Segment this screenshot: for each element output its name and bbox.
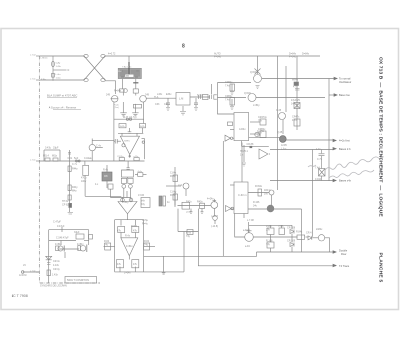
svg-text:L.7.0y: L.7.0y — [30, 271, 35, 273]
svg-text:D=84x: D=84x — [302, 53, 310, 56]
svg-text:OX 713 B — BASE DE TEMPS : D: OX 713 B — BASE DE TEMPS : DECLENCHEMENT… — [378, 57, 384, 217]
svg-text:CR.109: CR.109 — [287, 240, 296, 243]
svg-text:T=84: T=84 — [197, 94, 203, 97]
svg-text:A=R.M: A=R.M — [19, 274, 26, 277]
svg-text:L=84y: L=84y — [253, 104, 260, 107]
svg-text:Q.45: Q.45 — [277, 131, 283, 134]
svg-text:CR.108: CR.108 — [287, 227, 296, 230]
svg-text:500Ω T CONDITION: 500Ω T CONDITION — [67, 279, 89, 282]
svg-text:249: 249 — [145, 94, 150, 97]
svg-text:7=15: 7=15 — [278, 225, 284, 228]
svg-text:C.7x: C.7x — [72, 163, 78, 166]
svg-text:4=4x: 4=4x — [138, 171, 142, 173]
svg-text:To normal: To normal — [339, 77, 351, 81]
svg-text:P.131x: P.131x — [118, 156, 124, 158]
svg-text:4=84y: 4=84y — [77, 243, 84, 246]
svg-text:P=84y: P=84y — [214, 56, 222, 59]
svg-text:R44y: R44y — [72, 168, 78, 171]
svg-text:TLA: TLA — [154, 96, 159, 99]
svg-text:R=8y: R=8y — [170, 194, 176, 197]
svg-text:M4y: M4y — [72, 190, 77, 193]
svg-text:R47k: R47k — [120, 126, 125, 128]
svg-text:MB: MB — [104, 175, 108, 178]
svg-text:4=2x first: 4=2x first — [339, 139, 350, 143]
svg-text:C33: C33 — [155, 103, 160, 106]
svg-text:R=8y: R=8y — [170, 175, 176, 178]
svg-text:Double: Double — [339, 249, 348, 253]
svg-text:P.JEx: P.JEx — [41, 79, 46, 81]
svg-text:4=84y: 4=84y — [122, 201, 129, 204]
svg-text:W84x: W84x — [292, 79, 299, 82]
svg-text:R47k: R47k — [140, 126, 145, 128]
svg-text:(-8.2): (-8.2) — [186, 212, 191, 214]
svg-text:ℹ⁢C T 7908: ℹ⁢C T 7908 — [12, 293, 28, 298]
svg-text:1.43x: 1.43x — [52, 274, 59, 277]
svg-text:(+14.8: (+14.8 — [211, 215, 219, 218]
svg-text:E33x: E33x — [166, 93, 172, 96]
svg-text:402: 402 — [126, 76, 129, 78]
svg-text:4.7x: 4.7x — [293, 86, 298, 89]
svg-text:R=84x: R=84x — [114, 90, 122, 93]
svg-text:4.43x: 4.43x — [53, 264, 60, 267]
svg-text:MΩx: MΩx — [52, 155, 58, 158]
svg-text:L.7.08: L.7.08 — [247, 219, 254, 222]
svg-text:CR.4y: CR.4y — [53, 268, 60, 271]
svg-text:Q=84x: Q=84x — [244, 92, 252, 95]
svg-text:7.4x: 7.4x — [225, 85, 230, 88]
svg-text:4=84x: 4=84x — [126, 245, 133, 248]
svg-text:PLANCHE 5: PLANCHE 5 — [378, 253, 384, 283]
svg-text:4.7x: 4.7x — [292, 119, 297, 122]
svg-text:(7=x): (7=x) — [114, 107, 119, 109]
svg-text:100v: 100v — [81, 180, 87, 183]
svg-text:T.Ax L/3x: T.Ax L/3x — [122, 66, 132, 69]
svg-text:BLA SUMP et 4707 ABC: BLA SUMP et 4707 ABC — [47, 94, 77, 98]
svg-text:W.47 x(4.7μ): W.47 x(4.7μ) — [123, 116, 137, 119]
svg-text:SYNCHRO DE L'ECRAN: SYNCHRO DE L'ECRAN — [40, 285, 67, 288]
svg-text:4=24x: 4=24x — [207, 198, 214, 201]
svg-text:0.01: 0.01 — [68, 157, 73, 160]
svg-text:CR.4x: CR.4x — [53, 260, 60, 263]
svg-text:Bases 2.b: Bases 2.b — [339, 147, 351, 151]
svg-text:Q=84y: Q=84y — [250, 71, 258, 74]
svg-text:C.546 47μF: C.546 47μF — [56, 236, 69, 239]
svg-text:L.7.0x: L.7.0x — [30, 79, 35, 81]
svg-text:R=84: R=84 — [131, 225, 137, 228]
svg-text:0.47μ: 0.47μ — [45, 147, 52, 150]
svg-text:MΩ.4: MΩ.4 — [43, 155, 49, 158]
svg-text:Base rise: Base rise — [339, 93, 350, 97]
svg-text:J=CR: J=CR — [138, 194, 144, 197]
svg-text:C-Male: C-Male — [84, 157, 92, 160]
svg-text:7.4x: 7.4x — [225, 99, 230, 102]
svg-text:Row: Row — [341, 252, 346, 256]
svg-text:4=0.72: 4=0.72 — [108, 53, 116, 56]
svg-text:CR.88: CR.88 — [247, 143, 254, 146]
svg-text:8: 8 — [182, 43, 185, 49]
svg-text:C33: C33 — [164, 103, 169, 106]
svg-text:C.4x: C.4x — [96, 145, 102, 148]
svg-text:L.M: L.M — [179, 97, 183, 101]
svg-text:7.44: 7.44 — [315, 167, 320, 170]
svg-text:* Source x4 : Reverse: * Source x4 : Reverse — [49, 106, 77, 110]
svg-text:R=84x: R=84x — [255, 185, 263, 188]
svg-text:L.7.02: L.7.02 — [30, 55, 36, 57]
svg-text:T4 Trace: T4 Trace — [339, 264, 350, 268]
svg-text:R.4x: R.4x — [125, 235, 131, 238]
svg-text:0.044: 0.044 — [315, 178, 322, 181]
svg-text:a.94: a.94 — [245, 245, 250, 248]
svg-text:CR.4: CR.4 — [306, 232, 312, 235]
svg-text:C.47μF: C.47μF — [53, 221, 61, 224]
svg-text:4=84y: 4=84y — [55, 243, 62, 246]
svg-text:CP 62: CP 62 — [62, 204, 69, 207]
svg-text:4.7x: 4.7x — [316, 148, 321, 151]
svg-text:5μF: 5μF — [74, 157, 79, 160]
svg-text:x=4.7: x=4.7 — [178, 184, 185, 187]
svg-text:C.7v: C.7v — [317, 158, 323, 161]
svg-text:C.45: C.45 — [276, 109, 282, 112]
svg-text:a.94: a.94 — [243, 229, 248, 232]
svg-text:R43x: R43x — [197, 201, 203, 204]
svg-text:2x84x: 2x84x — [316, 228, 323, 231]
svg-text:4-84x: 4-84x — [239, 127, 246, 131]
svg-text:L.A x: L.A x — [281, 148, 287, 151]
svg-text:C-63 m: C-63 m — [238, 193, 247, 197]
svg-text:33μF: 33μF — [53, 147, 59, 150]
svg-text:Bases x4x: Bases x4x — [339, 179, 352, 183]
svg-text:0.47μF: 0.47μF — [57, 225, 65, 228]
svg-text:P=84y: P=84y — [289, 56, 297, 59]
svg-text:L.SE.Dx: L.SE.Dx — [41, 57, 48, 59]
svg-text:R=4y: R=4y — [142, 223, 148, 226]
svg-text:249: 249 — [106, 94, 111, 97]
svg-text:Oscillateur: Oscillateur — [339, 80, 351, 84]
svg-text:R.4x: R.4x — [103, 169, 109, 172]
svg-text:L.7.0x: L.7.0x — [30, 160, 35, 162]
svg-text:x.13x: x.13x — [134, 156, 139, 158]
svg-text:L.4x+: L.4x+ — [56, 74, 62, 76]
svg-text:(-14.8): (-14.8) — [211, 225, 218, 228]
svg-text:L=04x: L=04x — [124, 272, 131, 275]
svg-text:33μF: 33μF — [74, 231, 80, 234]
svg-text:R.84x: R.84x — [296, 231, 303, 234]
svg-text:R/W/x: R/W/x — [124, 140, 129, 142]
svg-text:R42x: R42x — [186, 201, 192, 204]
